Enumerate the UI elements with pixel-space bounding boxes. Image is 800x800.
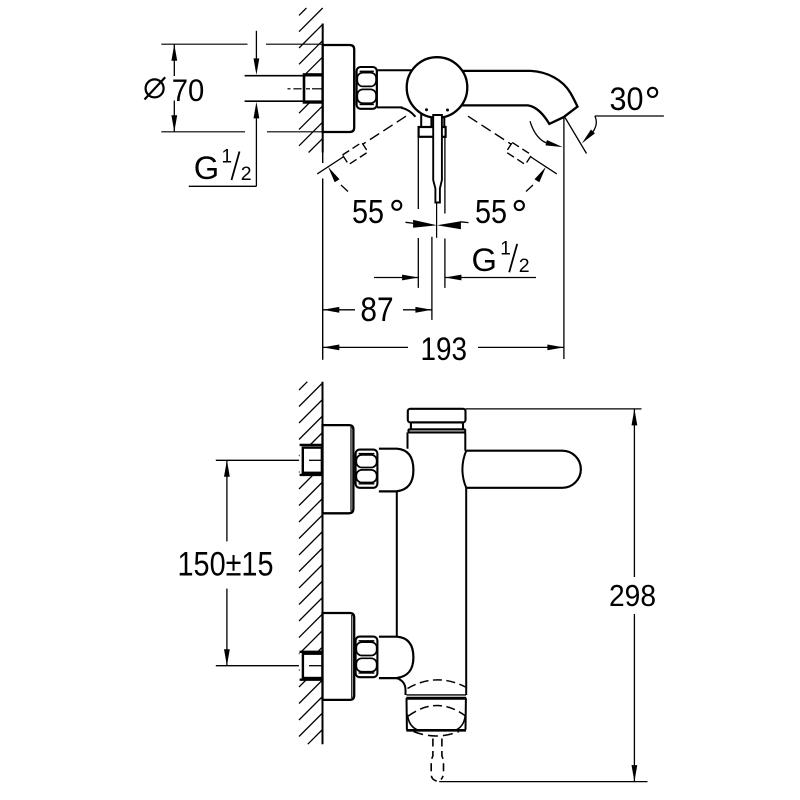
svg-text:193: 193 <box>421 331 468 367</box>
outlet edge line right <box>444 137 446 214</box>
upper fitting square <box>303 448 322 473</box>
dimension line 193 <box>323 346 408 348</box>
G1/2 lower dim line left <box>374 277 419 279</box>
extension line flange top <box>161 43 247 45</box>
55 deg extension line right <box>531 157 557 174</box>
indicator dot left <box>425 108 428 111</box>
arrow G1/2 upper up <box>254 102 260 119</box>
svg-text:2: 2 <box>241 163 252 185</box>
arrow 87 left <box>323 307 340 313</box>
lever phantom line right (dashed) <box>468 116 512 144</box>
55 deg extension line left <box>317 157 343 174</box>
svg-text:1: 1 <box>500 239 511 260</box>
dimension line 298 <box>633 409 635 577</box>
outlet edge line left <box>417 137 419 209</box>
aerator housing sides <box>406 698 408 730</box>
stub 55 right <box>526 185 533 192</box>
indicator dot right <box>446 109 449 112</box>
extension line flange bottom <box>161 131 245 133</box>
aerator housing top <box>406 697 466 700</box>
spout tip extension line (vertical) <box>563 117 565 359</box>
upper escutcheon <box>323 425 354 513</box>
svg-text:30: 30 <box>610 80 644 117</box>
arrow 55 left outer <box>328 167 339 182</box>
lower connection white <box>300 652 323 680</box>
water stream right <box>441 739 444 780</box>
arrow 193 right <box>547 345 564 351</box>
svg-text:298: 298 <box>609 578 656 613</box>
30 deg shelf line <box>595 115 664 117</box>
handle dome circle <box>407 57 468 118</box>
label &#216;70 symbol <box>146 79 164 97</box>
svg-text:150±15: 150±15 <box>178 546 274 584</box>
lever (side view) <box>466 451 581 488</box>
wall hatching (bottom view) <box>299 382 307 390</box>
lower escutcheon <box>323 613 355 700</box>
lower connection stubs <box>300 651 323 653</box>
arrow G1/2 lower left <box>402 275 419 281</box>
upper connection white <box>300 445 323 475</box>
lower fitting square <box>303 654 323 678</box>
298 top extension <box>466 408 642 410</box>
aerator solid side arc left <box>408 715 418 731</box>
upper union egg <box>379 449 414 492</box>
body left edge mid <box>396 491 398 636</box>
svg-text:55: 55 <box>475 194 507 231</box>
arrow 87 right <box>415 307 432 313</box>
aerator housing bottom <box>406 729 466 732</box>
lever phantom line left (dashed) <box>362 116 406 144</box>
upper hex nut <box>356 450 378 488</box>
svg-text:2: 2 <box>519 255 530 277</box>
lower centerline / 150 extension <box>216 665 299 667</box>
arrow G1/2 lower right <box>445 275 462 281</box>
body shoulder <box>409 429 466 432</box>
wall hatching (top view) <box>299 8 306 15</box>
arrow 55 right inner (bowtie) <box>437 221 461 229</box>
housing bulge arc <box>462 451 466 488</box>
arrow swing <box>546 140 563 147</box>
lever phantom grip left (dashed rect) <box>342 142 367 164</box>
arrow 150 down <box>224 649 230 666</box>
arrow 150 up <box>224 460 230 477</box>
lever neck lines <box>420 114 422 128</box>
arrow 298 down <box>632 765 638 782</box>
dimension line 87 <box>323 309 355 311</box>
stub 55 left <box>341 185 348 192</box>
svg-text:G: G <box>472 241 497 278</box>
298 bottom extension <box>439 781 647 783</box>
svg-text:55: 55 <box>352 194 384 231</box>
svg-text:87: 87 <box>360 291 393 329</box>
body cap <box>408 409 466 423</box>
lever phantom grip right (dashed rect) <box>506 142 531 164</box>
aerator dashed arc upper <box>408 680 466 689</box>
G1/2 upper leader line <box>255 31 257 60</box>
lever centerline <box>436 203 438 238</box>
water stream left <box>431 739 439 781</box>
svg-text:1: 1 <box>222 147 233 168</box>
body-circle fillet <box>401 108 416 117</box>
arrow 298 up <box>632 409 638 426</box>
escutcheon flange (top view) <box>323 45 355 132</box>
30 deg angled line <box>565 118 587 154</box>
body bottom thin line <box>407 694 467 696</box>
lever collar <box>419 127 446 137</box>
outlet centerline <box>431 237 433 320</box>
spout (top view) <box>459 71 578 124</box>
wall line (top view) <box>322 24 324 153</box>
G1/2 lower dim line right <box>445 277 536 279</box>
arrow 193 left <box>323 345 340 351</box>
dimension line 150 <box>226 460 228 541</box>
pipe centerline (top view) <box>288 88 291 90</box>
dimension line &#216;70 <box>173 44 175 76</box>
body left edge upper <box>407 432 409 448</box>
upper centerline / 150 extension <box>216 459 299 461</box>
lower hex nut <box>356 637 378 678</box>
aerator solid side arc right <box>456 715 465 731</box>
lever shaft <box>433 115 442 203</box>
hex nut (top view) <box>357 67 377 109</box>
svg-text:70: 70 <box>172 72 205 108</box>
arrow &#216;70 down <box>171 115 177 132</box>
body tube (top view) <box>377 69 413 71</box>
aerator dashed dome lower <box>414 732 460 737</box>
aerator dashed dome mid <box>408 706 465 717</box>
body cap ring <box>411 422 463 429</box>
body right edge mid <box>465 488 467 695</box>
arrow G1/2 upper down <box>254 58 260 75</box>
body lower-left edge <box>397 678 406 695</box>
upper connection stubs <box>300 444 323 446</box>
body right edge upper <box>464 432 466 450</box>
wall line (bottom view) <box>322 382 324 745</box>
arrow 30 deg <box>582 130 595 144</box>
arrow &#216;70 up <box>171 44 177 61</box>
spout swing arc <box>530 121 546 143</box>
svg-text:G: G <box>194 149 219 186</box>
lower union egg <box>379 637 414 678</box>
supply pipe (top view) <box>245 75 323 101</box>
arrow 55 right outer <box>535 167 546 182</box>
arrow 55 left inner (bowtie) <box>413 220 437 228</box>
30 deg leader arc <box>593 116 597 133</box>
wall fitting square (top view) <box>304 75 323 103</box>
